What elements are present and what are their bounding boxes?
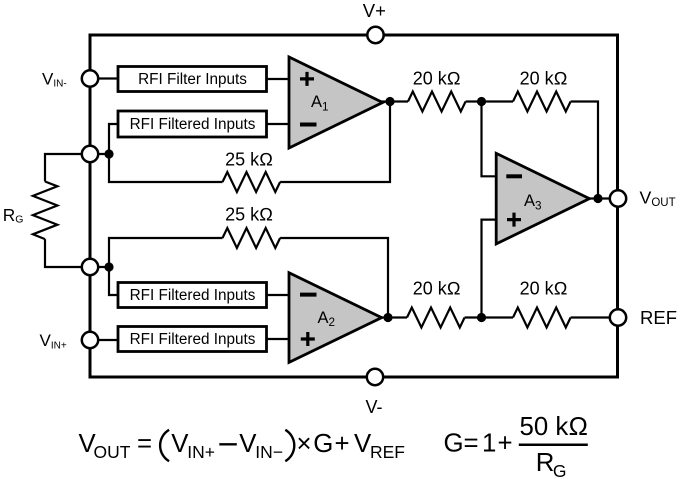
resistor 20 kOhm R6 — [513, 308, 571, 328]
terminal REF — [610, 309, 626, 325]
RFI filter box 3 (A2 - input) — [118, 283, 267, 308]
svg-text:R: R — [536, 449, 555, 477]
wire box3 to A2 - input — [267, 294, 291, 296]
terminal RG top — [82, 146, 98, 162]
junction node at RG top — [104, 149, 113, 158]
wire box2 left down through RG top node to 25k resistor R1 — [109, 124, 223, 182]
wire 25k R2 right end down to A2 output — [280, 238, 388, 318]
RFI filter box 2 (A1 - input) — [118, 111, 267, 137]
svg-text:V+: V+ — [363, 0, 386, 21]
wire between 20k R5 and 20k R6 — [465, 316, 513, 318]
wire top mid node down to A3 - input — [482, 102, 498, 177]
svg-text:G: G — [313, 430, 333, 458]
formula gain equation G = 1 + 50k/RG — [444, 413, 589, 479]
wire bottom mid node up to A3 + input — [482, 220, 498, 318]
op-amp A1 minus input symbol — [300, 123, 317, 127]
svg-text:=: = — [137, 430, 152, 458]
resistor 20 kOhm R4 — [513, 92, 571, 112]
op-amp A2 — [289, 273, 382, 363]
wire between 20k R3 and 20k R4 — [466, 100, 513, 102]
svg-text:+: + — [335, 430, 350, 458]
RFI filter box 1 (A1 + input) — [118, 67, 267, 92]
wire VIN- to RFI box 1 — [90, 77, 118, 79]
op-amp A2 minus input symbol — [300, 293, 317, 297]
resistor RG external gain resistor (vertical) — [33, 182, 58, 240]
terminal V- — [367, 369, 383, 385]
op-amp A1 plus input symbol — [300, 72, 314, 86]
wire box3 left up through RG bottom node to 25k resistor R2 — [109, 238, 223, 295]
svg-text:50 kΩ: 50 kΩ — [520, 413, 589, 441]
svg-text:25 kΩ: 25 kΩ — [225, 205, 273, 225]
terminal VIN- — [82, 70, 98, 86]
svg-text:VIN+: VIN+ — [40, 331, 67, 351]
svg-text:20 kΩ: 20 kΩ — [520, 69, 568, 89]
op-amp A3 — [496, 153, 589, 244]
svg-text:+: + — [498, 430, 513, 458]
wire A2 output to 20k R5 — [380, 316, 407, 318]
svg-text:REF: REF — [640, 307, 677, 328]
svg-text:25 kΩ: 25 kΩ — [225, 150, 273, 170]
wire A1 output to 20k R3 — [381, 100, 408, 102]
resistor 20 kOhm R5 — [407, 308, 465, 328]
wire RG bottom terminal to node — [90, 266, 109, 268]
svg-text:G: G — [553, 461, 567, 479]
junction node at RG bottom — [104, 262, 113, 271]
wire box4 to A2 + input — [267, 338, 291, 340]
wire A3 output to VOUT terminal — [588, 197, 618, 199]
svg-text:RFI Filtered Inputs: RFI Filtered Inputs — [130, 287, 256, 304]
svg-text:×: × — [297, 430, 312, 458]
wire RG resistor bottom to RG bottom terminal — [45, 239, 90, 267]
svg-text:V-: V- — [366, 397, 383, 417]
svg-text:IN−: IN− — [255, 442, 283, 462]
resistor 25 kOhm R1 — [223, 172, 281, 192]
terminal V+ — [367, 27, 383, 43]
svg-text:VIN-: VIN- — [42, 70, 67, 90]
resistor 20 kOhm R3 — [408, 92, 466, 112]
wire 25k R1 right end up to A1 output — [280, 102, 390, 183]
op-amp A2 plus input symbol — [301, 332, 315, 346]
terminal RG bottom — [82, 259, 98, 275]
terminal VIN+ — [82, 332, 98, 348]
svg-text:VOUT: VOUT — [640, 188, 676, 209]
op-amp A1 — [289, 57, 383, 148]
wire VIN+ to RFI box 4 — [90, 339, 118, 341]
formula VOUT equation — [79, 430, 406, 462]
resistor 25 kOhm R2 — [223, 228, 281, 248]
svg-text:RFI Filtered Inputs: RFI Filtered Inputs — [130, 116, 256, 133]
op-amp A3 minus input symbol — [506, 174, 522, 178]
svg-text:RFI Filtered Inputs: RFI Filtered Inputs — [130, 331, 256, 348]
RFI filter box 4 (A2 + input) — [118, 327, 267, 352]
svg-text:20 kΩ: 20 kΩ — [413, 69, 461, 89]
wire 20k R4 right, down to A3 output node — [571, 102, 598, 199]
svg-text:OUT: OUT — [94, 442, 131, 462]
terminal VOUT — [610, 190, 626, 206]
svg-text:RG: RG — [3, 205, 24, 226]
junction node between top 20k resistors — [477, 97, 486, 106]
wire RG top terminal to external gain resistor RG — [45, 154, 90, 182]
wire 20k R6 to REF terminal — [571, 316, 618, 318]
svg-text:1: 1 — [482, 430, 496, 458]
svg-text:20 kΩ: 20 kΩ — [520, 279, 568, 299]
junction node A3 output — [593, 194, 602, 203]
svg-text:=: = — [464, 430, 479, 458]
junction node A1 output — [385, 97, 394, 106]
wire box2 to A1 - input — [267, 123, 291, 125]
junction node A2 output — [383, 313, 392, 322]
wire RG top terminal to node — [90, 153, 109, 155]
svg-text:G: G — [444, 430, 464, 458]
junction node between bottom 20k resistors — [477, 313, 486, 322]
op-amp A3 plus input symbol — [507, 213, 521, 227]
wire box1 to A1 + input — [267, 78, 291, 80]
svg-text:RFI Filter Inputs: RFI Filter Inputs — [138, 71, 247, 88]
svg-text:20 kΩ: 20 kΩ — [413, 279, 461, 299]
IC boundary rectangle — [90, 35, 618, 377]
svg-text:REF: REF — [370, 442, 405, 462]
svg-text:IN+: IN+ — [187, 442, 215, 462]
